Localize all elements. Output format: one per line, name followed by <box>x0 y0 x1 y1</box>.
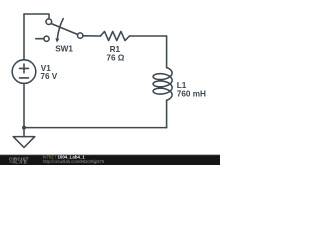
footer bar <box>0 153 220 156</box>
voltage source V1 <box>12 60 36 84</box>
V1 minus sign (negative terminal mark) <box>20 77 29 79</box>
svg-text:LAB: LAB <box>15 160 28 165</box>
wire SW1 to R1 <box>83 35 101 37</box>
svg-text:SW1: SW1 <box>55 44 73 53</box>
SW1 closed throw terminal (right) <box>78 33 83 38</box>
wire right vertical to L1 <box>166 36 168 68</box>
wire L1 to bottom rail <box>166 100 168 128</box>
SW1 open throw terminal (left) <box>44 36 49 41</box>
SW1 common terminal (top) <box>46 19 52 25</box>
SW1 actuation arrowhead <box>55 38 59 42</box>
ground <box>13 128 35 148</box>
svg-text:L1: L1 <box>177 81 187 90</box>
SW1 open throw lead stub <box>36 38 44 40</box>
wire R1 to top-right corner <box>130 35 167 37</box>
SW1 actuation arrow arc <box>57 19 63 39</box>
wire bottom rail <box>24 127 167 129</box>
svg-text:760 mH: 760 mH <box>177 90 206 99</box>
svg-text:76 V: 76 V <box>40 72 57 81</box>
ground lead stub <box>23 128 25 137</box>
inductor L1 <box>153 68 172 101</box>
wire left vertical bottom (V1 to bottom rail) <box>23 83 25 127</box>
svg-text:http://circuitlab.com/962c8hjp: http://circuitlab.com/962c8hjp575 <box>43 159 105 164</box>
wire left vertical top (V1 to top rail) <box>23 14 25 60</box>
svg-text:76 Ω: 76 Ω <box>106 54 124 63</box>
V1 circle body <box>12 60 36 84</box>
resistor R1 <box>101 31 130 40</box>
svg-text:R1: R1 <box>110 45 121 54</box>
V1 plus sign (positive terminal mark) <box>20 64 29 73</box>
wire top rail <box>24 14 49 19</box>
CircuitLab logo <box>9 156 29 164</box>
SW1 blade <box>51 24 77 35</box>
ground triangle <box>13 137 35 148</box>
switch SW1 <box>36 19 83 43</box>
node junction dot <box>22 126 26 130</box>
